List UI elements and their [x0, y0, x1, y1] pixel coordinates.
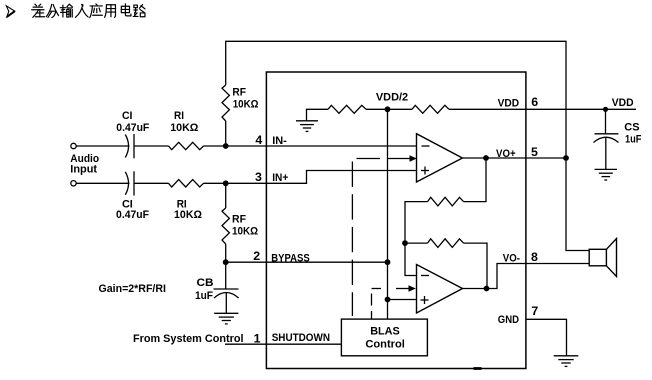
resistor divider R (left half)	[328, 105, 366, 113]
ground (CS)	[595, 169, 617, 180]
svg-text:0.47uF: 0.47uF	[116, 209, 149, 221]
op-amp U1A minus input symbol	[422, 145, 430, 147]
wire: IN+ pin 3 to U1A non-inverting input	[266, 171, 417, 184]
wire: IC pin 6 VDD to VDD node	[526, 108, 636, 110]
ground (CB)	[214, 313, 238, 324]
svg-text:SHUTDOWN: SHUTDOWN	[272, 332, 330, 344]
wire: feedback resistor 1 to mid node	[405, 202, 428, 244]
wire: RF bottom to BYPASS node	[225, 244, 227, 262]
wire: feedback mid node to U1B inverting input	[405, 243, 417, 275]
op-amp U1B (lower)	[417, 265, 463, 314]
wire: capacitor CI to resistor RI (lower)	[134, 182, 169, 184]
wire: IC pin 7 GND to ground	[526, 319, 567, 356]
svg-text:7: 7	[531, 304, 538, 318]
svg-text:CS: CS	[624, 122, 639, 134]
svg-text:VDD/2: VDD/2	[376, 92, 408, 104]
wire: capacitor CS to ground	[605, 138, 607, 170]
wire: IN+ node down to resistor RF (bottom)	[225, 183, 227, 208]
speaker LS1	[589, 239, 616, 277]
svg-text:10KΩ: 10KΩ	[233, 98, 259, 110]
junction node: IN- / RF top	[223, 143, 229, 149]
junction node: U1B output	[484, 286, 490, 292]
ground (GND pin)	[554, 356, 579, 367]
svg-text:VO-: VO-	[503, 253, 520, 265]
op-amp U1A plus input symbol	[421, 167, 429, 175]
wire: VDD node down to capacitor CS	[605, 109, 607, 134]
feedback resistor (upper)	[428, 197, 464, 206]
svg-text:0.47uF: 0.47uF	[116, 122, 149, 134]
svg-text:VDD: VDD	[498, 98, 520, 110]
wire: resistor RI to IC pin 3 IN+	[204, 182, 267, 184]
svg-text:2: 2	[253, 249, 260, 263]
svg-text:1uF: 1uF	[195, 290, 213, 302]
svg-text:BYPASS: BYPASS	[271, 253, 309, 265]
wire: VO+ rail down to speaker	[566, 158, 589, 251]
svg-text:IN-: IN-	[272, 135, 287, 147]
junction node: IN+ / RF bottom	[223, 180, 229, 186]
wire: capacitor CB to ground	[225, 293, 227, 314]
svg-text:10KΩ: 10KΩ	[174, 209, 202, 221]
svg-text:1: 1	[254, 331, 261, 345]
resistor RF (top) 10K	[222, 85, 229, 121]
input terminal (audio in lower)	[71, 181, 76, 186]
svg-text:5: 5	[531, 145, 538, 159]
svg-text:RF: RF	[232, 214, 246, 226]
svg-text:8: 8	[531, 250, 538, 264]
op-amp U1A (upper)	[417, 134, 463, 182]
svg-text:BLAS: BLAS	[370, 326, 400, 338]
wire: U1A output down to feedback resistor 1	[464, 158, 487, 202]
junction node: bias rail / op-amp U1B + input	[385, 297, 391, 303]
ground (VDD/2 divider)	[296, 121, 318, 132]
svg-text:3: 3	[255, 170, 262, 184]
wire: BYPASS node down to capacitor CB	[225, 262, 227, 289]
node VDD/2	[385, 106, 391, 112]
svg-text:10KΩ: 10KΩ	[232, 225, 258, 237]
svg-text:10KΩ: 10KΩ	[170, 122, 198, 134]
junction node: U1A output / feedback	[483, 155, 489, 161]
svg-text:Gain=2*RF/RI: Gain=2*RF/RI	[99, 283, 167, 295]
svg-text:VDD: VDD	[612, 97, 634, 109]
dashed bias line to U1A	[351, 162, 353, 317]
junction node: bias rail / BYPASS	[385, 259, 391, 265]
svg-text:From System Control: From System Control	[133, 333, 244, 345]
title bullet arrow	[6, 6, 15, 17]
svg-text:Input: Input	[70, 164, 97, 176]
junction mark on IC bottom edge	[474, 367, 482, 370]
junction node: VO+ / speaker rail	[563, 155, 569, 161]
BIAS control block	[341, 319, 427, 356]
svg-text:1uF: 1uF	[625, 134, 642, 146]
wire: resistor RI to IC pin 4 IN-	[204, 145, 267, 147]
resistor RF (bottom) 10K	[222, 208, 229, 244]
op-amp U1B minus input symbol	[421, 275, 429, 277]
wire: IN- pin 4 to U1A inverting input	[266, 145, 417, 147]
junction node: feedback mid	[402, 240, 408, 246]
svg-text:CI: CI	[122, 110, 133, 122]
svg-text:CB: CB	[197, 277, 214, 289]
wire: U1B output to pin 8 VO- and speaker	[463, 264, 590, 289]
wire: ground stub to VDD/2 divider rail	[307, 109, 329, 121]
wire: lower input terminal to capacitor CI (lower)	[76, 182, 130, 184]
wire: upper input terminal to capacitor CI	[76, 145, 130, 147]
wire: divider left to VDD/2 node	[366, 108, 412, 110]
capacitor CB 1uF	[214, 289, 239, 298]
wire: capacitor CI to resistor RI (upper)	[134, 145, 169, 147]
wire: bias rail to U1B non-inverting input	[388, 299, 417, 301]
resistor RI (lower) 10K	[169, 180, 204, 187]
wire: IN- node up to resistor RF (top)	[225, 121, 227, 146]
wire: U1A output to pin 5 VO+ rail	[462, 157, 566, 159]
feedback resistor (lower)	[428, 239, 464, 248]
title text: 差分输入应用电路 (differential input application circuit)	[32, 4, 145, 18]
svg-text:6: 6	[531, 95, 538, 109]
input terminal (audio in upper)	[71, 143, 76, 148]
node VDD	[603, 107, 608, 112]
wire: VDD/2 node down bias rail to BIAS control block	[387, 109, 389, 319]
wire: BYPASS node through IC pin 2 to bias rail	[226, 261, 388, 263]
capacitor CI (upper)	[125, 134, 134, 158]
wire: feedback resistor 2 to U1B output	[464, 243, 488, 288]
svg-text:4: 4	[255, 133, 262, 147]
svg-text:GND: GND	[498, 314, 519, 326]
capacitor CI (lower)	[125, 171, 134, 195]
resistor RI (upper) 10K	[169, 142, 204, 149]
capacitor CS 1uF	[594, 134, 619, 143]
junction node: BYPASS / CB	[223, 259, 229, 265]
wire: mid node to feedback resistor 2	[405, 242, 428, 244]
svg-text:IN+: IN+	[272, 172, 288, 184]
wire: divider right to IC pin 6 VDD	[449, 108, 526, 110]
svg-text:Control: Control	[365, 339, 405, 351]
svg-text:VO+: VO+	[496, 148, 516, 160]
op-amp U1B plus input symbol	[421, 296, 429, 304]
dashed bias line to U1B	[371, 294, 373, 320]
svg-text:RF: RF	[232, 87, 246, 99]
resistor divider R (right half)	[412, 105, 449, 113]
svg-text:RI: RI	[174, 110, 184, 122]
op-amp IC U1 package outline	[266, 72, 526, 369]
wire: RF top feedback loop over IC to VO+ rail	[226, 41, 566, 158]
wire: system control to IC pin 1 SHUTDOWN, on to BIAS block	[225, 343, 341, 345]
